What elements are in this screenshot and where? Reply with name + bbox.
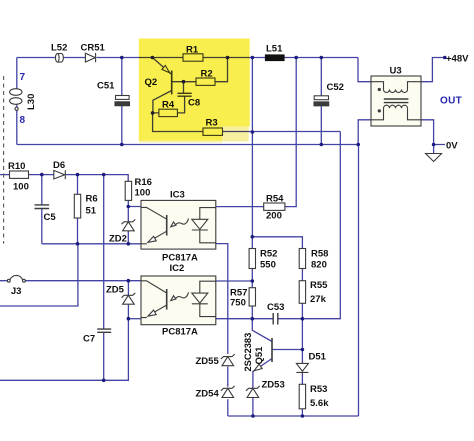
svg-text:ZD53: ZD53 <box>262 380 285 391</box>
svg-text:5.6k: 5.6k <box>310 398 329 409</box>
svg-text:550: 550 <box>260 260 276 271</box>
svg-text:U3: U3 <box>390 66 402 77</box>
svg-text:C52: C52 <box>327 82 344 93</box>
svg-text:R55: R55 <box>310 280 328 291</box>
svg-text:R53: R53 <box>310 384 327 395</box>
svg-text:R58: R58 <box>311 249 328 260</box>
svg-text:C53: C53 <box>267 302 284 313</box>
svg-text:L51: L51 <box>266 44 283 55</box>
svg-text:R6: R6 <box>86 194 98 205</box>
svg-text:Q51: Q51 <box>254 346 265 365</box>
svg-text:ZD2: ZD2 <box>109 234 127 245</box>
svg-text:R16: R16 <box>135 177 152 188</box>
svg-text:L30: L30 <box>26 94 37 110</box>
svg-text:8: 8 <box>20 115 26 126</box>
svg-text:R52: R52 <box>260 249 277 260</box>
svg-text:C7: C7 <box>83 334 95 345</box>
svg-text:ZD54: ZD54 <box>196 389 220 400</box>
svg-text:R54: R54 <box>266 194 284 205</box>
svg-text:D6: D6 <box>53 160 65 171</box>
svg-text:200: 200 <box>266 211 282 222</box>
svg-text:C51: C51 <box>97 81 115 92</box>
svg-text:2SC2383: 2SC2383 <box>243 333 253 372</box>
svg-text:PC817A: PC817A <box>162 253 198 264</box>
svg-text:100: 100 <box>135 188 151 199</box>
svg-text:100: 100 <box>13 182 29 193</box>
svg-text:D51: D51 <box>309 352 327 363</box>
svg-text:L52: L52 <box>51 43 67 54</box>
svg-text:0V: 0V <box>446 141 458 152</box>
svg-text:J3: J3 <box>11 286 22 297</box>
svg-text:PC817A: PC817A <box>162 327 198 338</box>
svg-text:+48V: +48V <box>446 54 469 65</box>
svg-text:CR51: CR51 <box>81 43 106 54</box>
svg-text:OUT: OUT <box>440 96 462 107</box>
svg-text:R10: R10 <box>8 161 25 172</box>
svg-text:27k: 27k <box>310 294 327 305</box>
svg-text:51: 51 <box>86 206 97 217</box>
svg-text:750: 750 <box>230 298 246 309</box>
svg-text:C5: C5 <box>44 212 57 223</box>
svg-text:ZD5: ZD5 <box>106 285 125 296</box>
svg-text:7: 7 <box>20 72 26 83</box>
svg-text:ZD55: ZD55 <box>196 356 220 367</box>
svg-text:IC2: IC2 <box>170 263 185 274</box>
svg-text:820: 820 <box>311 260 327 271</box>
svg-text:IC3: IC3 <box>170 190 185 201</box>
